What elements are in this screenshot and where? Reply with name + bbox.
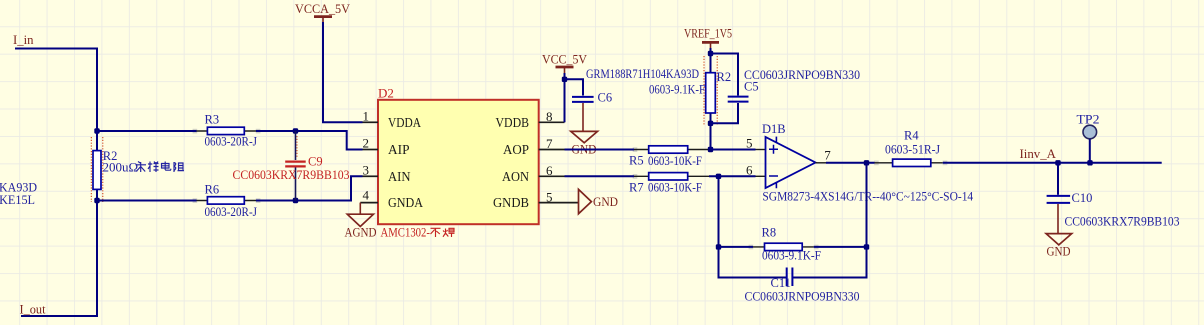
svg-text:GRM188R71H104KA93D: GRM188R71H104KA93D	[586, 67, 699, 81]
svg-text:R6: R6	[205, 183, 220, 197]
pin 1 VDDA	[363, 108, 422, 131]
pin 5 GNDB	[493, 189, 579, 211]
svg-text:0603-20R-J: 0603-20R-J	[205, 205, 258, 219]
svg-text:VDDB: VDDB	[496, 116, 530, 131]
wire feedback left column	[718, 176, 720, 247]
svg-text:0603-9.1K-F: 0603-9.1K-F	[762, 249, 821, 263]
node junction VREF branch	[708, 51, 713, 56]
node junction C5 return	[708, 121, 713, 126]
node junction C10 tap	[1055, 160, 1060, 165]
svg-text:C6: C6	[598, 91, 613, 105]
pin 2 AIP	[363, 136, 410, 159]
svg-text:I_out: I_out	[20, 302, 46, 317]
svg-text:GND: GND	[593, 194, 618, 209]
svg-text:VCC_5V: VCC_5V	[542, 52, 588, 67]
svg-text:3: 3	[363, 162, 370, 177]
wire op-amp output	[816, 147, 875, 162]
wire to C5	[711, 54, 739, 124]
capacitor C5	[728, 68, 860, 102]
label AMC1302-不焊	[381, 225, 455, 240]
svg-text:8: 8	[546, 109, 553, 124]
net label I_in	[13, 32, 34, 47]
node junction at R6 row left	[94, 198, 99, 203]
svg-text:TP2: TP2	[1077, 112, 1100, 126]
wire VREF down	[710, 48, 712, 73]
ground GND below C10	[1046, 204, 1072, 258]
wire VCC to pin8	[564, 73, 566, 122]
wire R8 row left	[719, 246, 754, 248]
wire left column through R2	[21, 131, 97, 316]
svg-text:D1B: D1B	[762, 122, 786, 136]
svg-text:C10: C10	[1072, 191, 1093, 205]
op-amp D1B	[762, 122, 974, 203]
svg-text:7: 7	[824, 147, 831, 162]
svg-text:Iinv_A: Iinv_A	[1020, 146, 1057, 161]
partial text KA93D	[0, 179, 37, 194]
capacitor C10	[1047, 163, 1180, 229]
svg-text:R5: R5	[629, 154, 644, 168]
wire feedback right column	[792, 163, 866, 278]
node junction AON/feedback	[716, 174, 721, 179]
wire I_in horizontal and down	[15, 49, 97, 131]
capacitor C6	[572, 67, 699, 104]
node junction R8 left	[716, 244, 721, 249]
value label 200uΩ采样电阻	[103, 159, 185, 174]
svg-text:0603-51R-J: 0603-51R-J	[885, 142, 940, 156]
svg-text:GNDA: GNDA	[388, 196, 424, 211]
power port VCCA_5V	[295, 1, 351, 23]
net label Iinv_A	[1020, 146, 1057, 161]
svg-text:CC0603KRX7R9BB103: CC0603KRX7R9BB103	[233, 167, 350, 182]
wire AON to op-amp	[709, 162, 766, 177]
svg-text:5: 5	[746, 136, 753, 151]
svg-text:C11: C11	[771, 276, 791, 290]
svg-text:GND: GND	[1047, 243, 1071, 258]
node junction VCC branch	[562, 77, 567, 82]
svg-text:4: 4	[363, 188, 370, 203]
svg-text:SGM8273-4XS14G/TR--40°C~125°C-: SGM8273-4XS14G/TR--40°C~125°C-SO-14	[762, 189, 973, 203]
resistor R3	[197, 113, 258, 149]
svg-text:2: 2	[363, 136, 370, 151]
resistor R2 sample body	[91, 137, 117, 202]
svg-text:VREF_1V5: VREF_1V5	[684, 26, 732, 41]
capacitor C11	[745, 268, 860, 304]
svg-text:GNDB: GNDB	[493, 196, 529, 211]
svg-text:6: 6	[746, 162, 753, 177]
svg-text:R7: R7	[629, 181, 644, 195]
wire R8 row right	[814, 246, 867, 248]
svg-text:CC0603JRNPO9BN330: CC0603JRNPO9BN330	[745, 289, 860, 303]
node junction C9 top	[293, 128, 298, 133]
wire AOP to op-amp	[711, 136, 766, 151]
wire C11 left	[719, 247, 787, 278]
svg-text:AGND: AGND	[345, 225, 377, 240]
capacitor C9	[233, 131, 350, 201]
partial text KE15L	[0, 192, 35, 207]
node junction R8 right	[864, 244, 869, 249]
svg-text:200uΩ: 200uΩ	[103, 159, 139, 174]
node junction C9 bottom	[293, 198, 298, 203]
wire R6 row left	[97, 200, 197, 202]
svg-text:6KE15L: 6KE15L	[0, 192, 35, 207]
wire output row to right	[943, 162, 1162, 164]
svg-text:AON: AON	[502, 170, 529, 185]
power port VCC_5V	[542, 52, 588, 75]
svg-text:CC0603JRNPO9BN330: CC0603JRNPO9BN330	[744, 68, 860, 82]
pin 7 AOP	[503, 136, 565, 158]
op-amp isolator U D2 body	[378, 85, 539, 224]
svg-text:6: 6	[546, 163, 553, 178]
svg-text:D2: D2	[378, 85, 394, 100]
pin 8 VDDB	[496, 109, 565, 131]
wire AOP row	[565, 149, 635, 151]
svg-text:R4: R4	[904, 129, 919, 143]
svg-text:0603-20R-J: 0603-20R-J	[205, 135, 258, 149]
pin-end markers (faint)	[193, 129, 948, 250]
svg-text:R8: R8	[762, 225, 777, 239]
resistor R8	[753, 225, 821, 262]
test point TP2	[1077, 112, 1100, 162]
svg-text:7: 7	[546, 136, 553, 151]
pin 6 AON	[502, 163, 565, 185]
resistor R7	[629, 173, 709, 195]
svg-text:I_in: I_in	[13, 32, 34, 47]
svg-text:AMC1302-: AMC1302-	[381, 225, 431, 240]
svg-text:0603-9.1K-F: 0603-9.1K-F	[649, 82, 705, 96]
power port VREF_1V5	[684, 26, 732, 50]
ground GND right-pointing at GNDB	[579, 189, 619, 213]
svg-text:AIP: AIP	[388, 143, 410, 158]
svg-text:VDDA: VDDA	[388, 116, 422, 131]
svg-text:AOP: AOP	[503, 143, 529, 158]
svg-text:AIN: AIN	[388, 170, 411, 185]
ground AGND symbol	[345, 203, 377, 240]
wire R2b bottom	[710, 113, 712, 150]
svg-text:5: 5	[546, 189, 553, 204]
node junction output/feedback	[864, 160, 869, 165]
node junction at R3 row left	[94, 128, 99, 133]
svg-text:1: 1	[363, 108, 370, 123]
node junction TP2 tap	[1087, 160, 1092, 165]
node junction AOP/R2	[708, 147, 713, 152]
wire R3 row left	[97, 130, 197, 132]
resistor R6	[197, 183, 258, 219]
resistor R4	[875, 129, 943, 167]
svg-text:0603-10K-F: 0603-10K-F	[648, 181, 702, 195]
wire AON row	[565, 175, 635, 177]
resistor R5	[629, 146, 711, 168]
wire R3 row right to pin2	[256, 131, 363, 150]
pin 4 GNDA	[360, 188, 423, 212]
svg-text:0603-10K-F: 0603-10K-F	[648, 154, 702, 168]
ground GND below C6	[571, 103, 598, 156]
pin 3 AIN	[363, 162, 411, 185]
net label I_out	[20, 302, 46, 317]
svg-text:CC0603KRX7R9BB103: CC0603KRX7R9BB103	[1065, 214, 1180, 228]
svg-text:VCCA_5V: VCCA_5V	[295, 1, 351, 16]
resistor R2 9.1K body	[649, 56, 731, 125]
svg-text:R3: R3	[205, 113, 220, 127]
wire VCC branch to C6	[565, 79, 584, 95]
wire VCCA to pin1	[323, 22, 363, 122]
svg-text:R2: R2	[717, 70, 732, 84]
wire R6 row right to pin3	[256, 176, 363, 200]
